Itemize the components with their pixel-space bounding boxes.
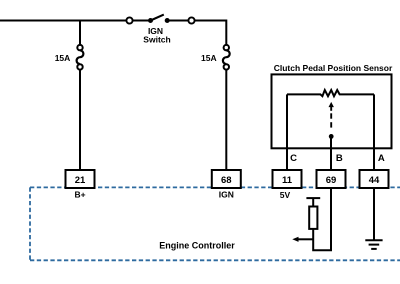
svg-text:15A: 15A: [201, 53, 217, 63]
svg-text:Switch: Switch: [143, 34, 170, 44]
wire: switch to right fuse corner: [195, 21, 227, 45]
svg-text:68: 68: [221, 175, 232, 186]
svg-text:Engine Controller: Engine Controller: [159, 241, 235, 251]
label: IGN Switch: [143, 26, 170, 44]
ground GND: [365, 240, 382, 249]
fuse F1 15A: [77, 45, 84, 70]
pin 69: [317, 170, 346, 188]
signal arrow to ADC: [292, 237, 313, 242]
wire: pin 44 to ground: [373, 188, 375, 240]
svg-text:B+: B+: [74, 190, 85, 200]
wire: pin 69 to pull-up network: [313, 188, 331, 250]
5V rail bar: [306, 197, 320, 199]
svg-text:5V: 5V: [280, 190, 291, 200]
wire: left fuse to pin 21: [79, 70, 81, 171]
potentiometer wiper dashed arrow: [329, 102, 334, 139]
pull-up resistor R2: [309, 207, 317, 229]
potentiometer R1 track with zigzag: [287, 90, 374, 96]
wire: resistor to 5V rail stub: [312, 198, 314, 206]
svg-text:B: B: [336, 153, 343, 164]
svg-text:69: 69: [326, 175, 337, 186]
svg-text:IGN: IGN: [219, 190, 234, 200]
svg-text:Clutch Pedal Position Sensor: Clutch Pedal Position Sensor: [274, 63, 393, 73]
fuse F2 15A: [223, 45, 230, 70]
wire: battery feed from left edge to switch: [0, 20, 127, 22]
wire: pot end A to pin 44: [373, 94, 375, 171]
svg-text:C: C: [290, 153, 297, 164]
svg-text:11: 11: [282, 175, 293, 186]
IGN switch SW1: [126, 15, 194, 24]
wire: right fuse to pin 68: [225, 70, 227, 171]
pin 44: [360, 170, 389, 188]
wire: pot end C to pin 11: [286, 94, 288, 171]
svg-text:15A: 15A: [55, 53, 71, 63]
wire: junction drop to left fuse: [79, 21, 81, 45]
svg-text:44: 44: [369, 175, 380, 186]
pin 21: [66, 170, 95, 188]
Engine Controller dashed border: [30, 187, 400, 260]
sensor box outline: [272, 74, 392, 148]
svg-text:21: 21: [75, 175, 86, 186]
pin 11: [273, 170, 302, 188]
svg-text:A: A: [378, 153, 385, 164]
wire: wiper B to pin 69: [330, 136, 332, 171]
pin 68: [212, 170, 241, 188]
